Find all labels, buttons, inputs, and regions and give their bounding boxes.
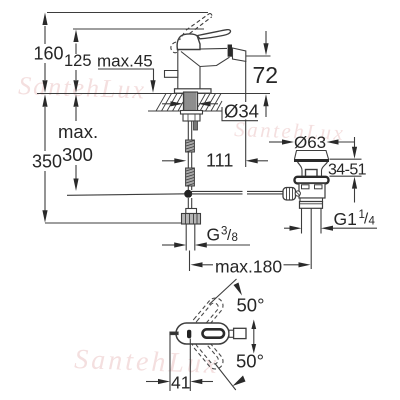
deck hatch left (156, 94, 183, 112)
svg-text:111: 111 (206, 151, 233, 171)
raised lever (dashed) (171, 14, 212, 53)
extension line top (raised lever height 160) (47, 12, 208, 14)
hose below junction (187, 198, 189, 209)
pipe centerline (189, 251, 191, 272)
label G3/8 (207, 225, 238, 245)
label G1 1/4 (334, 209, 376, 229)
svg-text:8: 8 (232, 232, 238, 244)
50deg ray upper (209, 279, 237, 305)
svg-text:160: 160 (34, 44, 64, 64)
bayonet slot right (315, 185, 323, 189)
top view: dashed swung handle upper (189, 295, 226, 335)
dimension 34-51 arrows (354, 137, 356, 148)
G1 1/4 diameter arrows (284, 227, 290, 229)
svg-text:41: 41 (171, 373, 190, 393)
svg-text:34-51: 34-51 (328, 162, 367, 179)
dimension max.180 left arrow (191, 262, 203, 267)
pop-up rod knob (165, 71, 178, 78)
watermark SantehLux middle-right (234, 117, 346, 145)
deck hatch right (198, 94, 222, 112)
spout tip (233, 48, 246, 61)
top view: cartridge mark (187, 330, 191, 339)
waste body (299, 184, 325, 199)
fixing stud (194, 121, 198, 130)
faucet body right contour (181, 52, 230, 90)
hose braid section 1 (186, 140, 195, 152)
hose-depth extension line (max.300 level) (67, 194, 188, 196)
svg-text:max.45: max.45 (97, 52, 153, 71)
dimension 72 spout connector line (246, 55, 271, 57)
deck underside line (148, 110, 222, 112)
lever pivot block (177, 34, 200, 50)
dimension max.180 right arrow (284, 264, 300, 266)
50deg arrowhead upper (234, 283, 243, 296)
threaded shank through deck (184, 92, 198, 111)
svg-text:SantehLux: SantehLux (74, 344, 220, 380)
svg-text:350: 350 (32, 152, 62, 172)
spout aerator joint (228, 45, 232, 57)
faucet body left edge (177, 50, 179, 90)
leader for max.45 (98, 69, 154, 81)
spout-tip extension line (245, 61, 247, 102)
top view: dashed swung handle lower (189, 332, 226, 372)
waste flange (295, 177, 329, 184)
dimension 72 lower arrow (263, 94, 268, 106)
lift rod housing (306, 170, 318, 178)
svg-text:G: G (207, 225, 221, 245)
dimension 160 vertical line (44, 26, 46, 44)
dimension 41 left arrow (146, 381, 159, 383)
supply hose middle (187, 152, 189, 168)
G3/8 connector top (186, 209, 197, 214)
G3/8 union nut (182, 214, 201, 225)
G3/8 pipe diameter arrows (162, 244, 175, 246)
plug neck (298, 162, 328, 177)
outlet pipe centerline (310, 208, 312, 269)
50deg ray lower (215, 364, 235, 390)
connection pipe G3/8 (185, 224, 187, 251)
supply hose upper (187, 121, 189, 140)
mounting nut (183, 114, 200, 121)
hose braid section 2 (186, 168, 195, 186)
mounting washer (181, 111, 203, 115)
arrow shank diameter right (198, 101, 211, 106)
top view: faucet body (plan) (176, 323, 229, 344)
svg-text:72: 72 (253, 62, 279, 88)
bayonet slot left (302, 185, 310, 189)
waste tailpiece (300, 198, 323, 202)
dimension 41 extension lines (169, 335, 171, 391)
pop-up rod horizontal (191, 190, 243, 192)
Ø63 left arrow (269, 141, 283, 143)
svg-text:4: 4 (369, 216, 376, 228)
rod junction dot (184, 190, 192, 198)
hose below braid (187, 186, 189, 190)
top view: aerator tab (170, 332, 178, 335)
svg-text:125: 125 (64, 52, 92, 70)
dimension 350 vertical line (44, 107, 46, 151)
dimension max.300 vertical line (75, 107, 77, 121)
watermark SantehLux bottom (74, 344, 220, 380)
top view: handle connector (229, 330, 234, 337)
waste plug dome (295, 151, 329, 160)
svg-text:G1: G1 (334, 209, 357, 229)
dimension 34-51 extension lines (330, 158, 362, 160)
dimension 72 upper arrow (265, 31, 267, 44)
svg-text:50°: 50° (236, 351, 264, 372)
svg-text:300: 300 (62, 144, 93, 165)
extension line lever height 125 (73, 28, 204, 30)
rod clevis knob (283, 188, 296, 201)
dimension 125 vertical line (75, 44, 77, 55)
bottom extension line (350 level) (45, 222, 182, 224)
watermark SantehLux top (18, 71, 147, 104)
faucet body/spout top edge (178, 48, 227, 49)
svg-text:Ø34: Ø34 (224, 101, 259, 122)
lever handle blade (198, 30, 231, 39)
arrow shank diameter left (171, 101, 184, 106)
svg-text:max.: max. (58, 121, 98, 142)
swivel range arrow (253, 327, 255, 347)
top view: loop handle (203, 329, 225, 337)
deck surface line (37, 93, 270, 95)
dimension 41 right arrow (190, 379, 202, 384)
waste outlet pipe G1 1/4 (301, 208, 303, 233)
50deg arrowhead lower (233, 376, 246, 387)
svg-text:Ø63: Ø63 (294, 133, 326, 152)
top view: spout block (234, 328, 246, 338)
Ø63 right arrow (327, 139, 339, 144)
clevis pivot (295, 191, 300, 196)
dimension 111 right arrow (246, 158, 258, 163)
plug rim (294, 159, 329, 162)
faucet base plate (175, 89, 212, 93)
dimension 111 left arrow (162, 160, 176, 162)
svg-text:50°: 50° (237, 295, 265, 316)
svg-text:max.180: max.180 (215, 257, 282, 277)
svg-text:SantehLux: SantehLux (18, 71, 147, 104)
